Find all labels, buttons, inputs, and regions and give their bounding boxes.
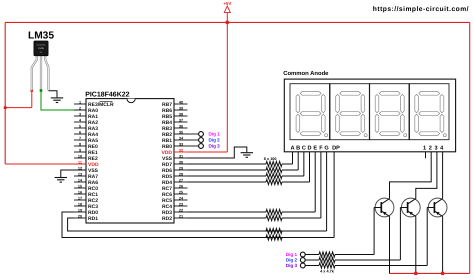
svg-text:F: F [319, 145, 323, 151]
svg-text:15: 15 [78, 184, 82, 188]
svg-text:1: 1 [79, 100, 81, 104]
svg-text:26: 26 [179, 184, 183, 188]
svg-text:2: 2 [429, 145, 432, 151]
svg-text:22: 22 [179, 208, 183, 212]
svg-text:G: G [324, 145, 328, 151]
svg-text:PIC18F46K22: PIC18F46K22 [85, 92, 129, 99]
svg-text:35: 35 [179, 130, 183, 134]
svg-text:8 x 100: 8 x 100 [264, 157, 277, 161]
svg-text:D: D [307, 145, 311, 151]
svg-text:7: 7 [79, 136, 81, 140]
svg-text:21: 21 [179, 214, 183, 218]
svg-text:+5V: +5V [223, 1, 231, 6]
svg-text:Dig 3: Dig 3 [286, 263, 298, 268]
svg-text:Dig 2: Dig 2 [209, 138, 221, 143]
svg-text:17: 17 [78, 196, 82, 200]
svg-text:LM35: LM35 [28, 30, 54, 41]
svg-text:Dig 1: Dig 1 [209, 132, 221, 137]
svg-text:Common Anode: Common Anode [283, 70, 329, 77]
svg-text:39: 39 [179, 106, 183, 110]
svg-text:38: 38 [179, 112, 183, 116]
svg-text:37: 37 [179, 118, 183, 122]
svg-text:RD2: RD2 [162, 216, 172, 222]
svg-text:40: 40 [179, 100, 183, 104]
svg-text:6: 6 [79, 130, 81, 134]
svg-text:3: 3 [79, 112, 81, 116]
svg-text:31: 31 [179, 154, 183, 158]
svg-text:30: 30 [179, 160, 183, 164]
svg-text:11: 11 [78, 160, 82, 164]
svg-text:20: 20 [78, 214, 82, 218]
svg-text:E: E [313, 145, 317, 151]
svg-text:4 x 4.7k: 4 x 4.7k [320, 270, 335, 274]
svg-text:LM35: LM35 [38, 47, 45, 50]
svg-text:13: 13 [78, 172, 82, 176]
svg-text:A: A [290, 145, 294, 151]
svg-text:10: 10 [78, 154, 82, 158]
svg-text:36: 36 [179, 124, 183, 128]
svg-text:25: 25 [179, 190, 183, 194]
svg-text:23: 23 [179, 202, 183, 206]
svg-text:C: C [302, 145, 306, 151]
svg-text:28: 28 [179, 172, 183, 176]
svg-text:29: 29 [179, 166, 183, 170]
svg-text:DP: DP [332, 145, 340, 151]
svg-text:32: 32 [179, 148, 183, 152]
svg-text:1: 1 [423, 145, 426, 151]
svg-text:Dig 3: Dig 3 [209, 144, 221, 149]
svg-text:16: 16 [78, 190, 82, 194]
svg-text:5: 5 [79, 124, 81, 128]
svg-text:https://simple-circuit.com/: https://simple-circuit.com/ [373, 6, 469, 13]
svg-text:Dig 2: Dig 2 [286, 258, 298, 263]
svg-text:27: 27 [179, 178, 183, 182]
svg-text:18: 18 [78, 202, 82, 206]
svg-text:9: 9 [79, 148, 81, 152]
svg-text:B: B [296, 145, 300, 151]
svg-text:3: 3 [434, 145, 437, 151]
svg-text:NATIONAL: NATIONAL [36, 44, 45, 47]
svg-text:RD1: RD1 [88, 216, 98, 222]
svg-text:19: 19 [78, 208, 82, 212]
svg-text:8: 8 [79, 142, 81, 146]
svg-text:Dig 1: Dig 1 [286, 252, 298, 257]
svg-text:2: 2 [79, 106, 81, 110]
svg-text:33: 33 [179, 142, 183, 146]
